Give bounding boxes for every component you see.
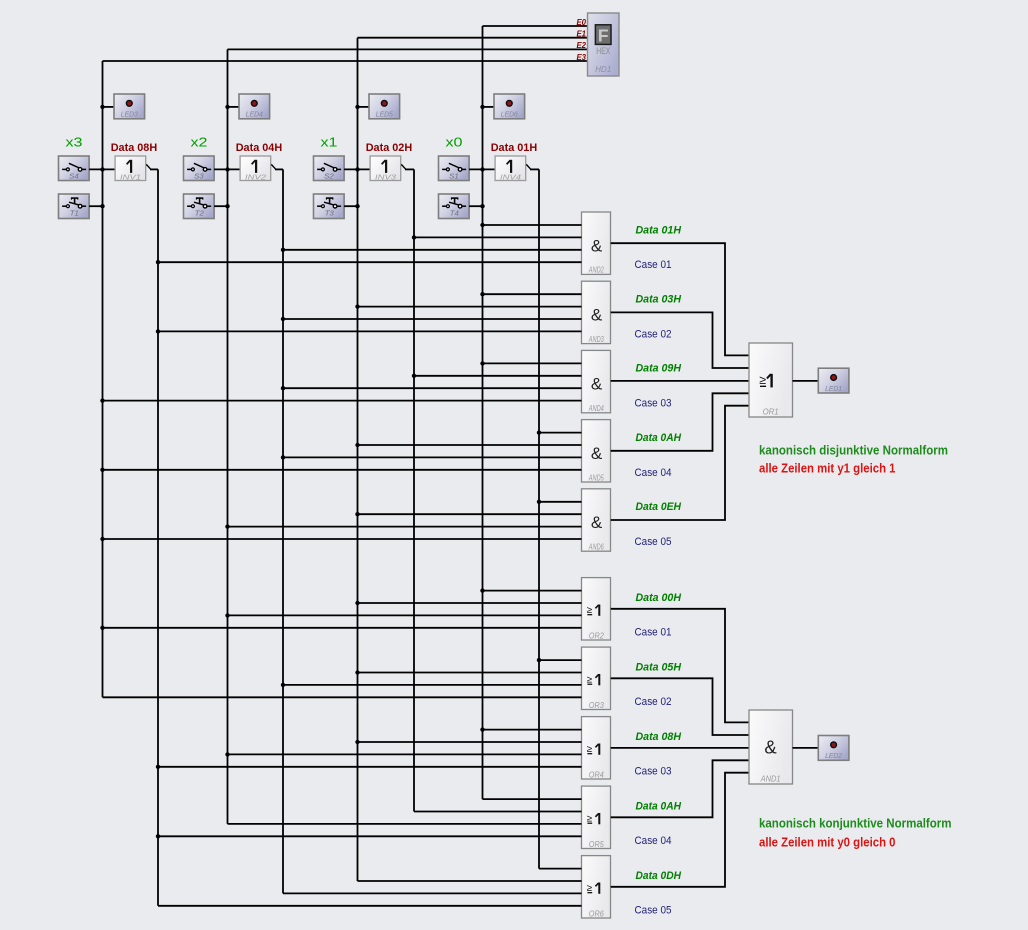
svg-text:Data 01H: Data 01H xyxy=(491,142,538,154)
wire rail x1 to OR3 input 2 xyxy=(358,672,582,674)
wire E2 from rail x2 to hex display xyxy=(228,48,588,50)
svg-text:alle Zeilen mit y0 gleich 0: alle Zeilen mit y0 gleich 0 xyxy=(759,835,896,849)
wire rail x1 to OR6 input 2 xyxy=(358,880,582,882)
svg-text:AND4: AND4 xyxy=(588,404,604,413)
wire T2 output to rail xyxy=(214,205,227,207)
junction rail/T1 xyxy=(100,204,104,208)
junction rail/T4 xyxy=(480,204,484,208)
wire LED4 stub xyxy=(228,106,241,108)
svg-text:HEX: HEX xyxy=(596,46,610,56)
wire E0 from rail x0 to hex display xyxy=(483,25,588,27)
svg-text:E0: E0 xyxy=(576,18,586,27)
wire INV1 output to rail nx3 xyxy=(150,168,158,170)
svg-text:OR4: OR4 xyxy=(589,770,605,779)
junction nx2/OR3.in3 xyxy=(281,683,285,687)
inverter INV4 output negation slash xyxy=(526,164,530,169)
svg-text:OR5: OR5 xyxy=(589,840,605,849)
led LED1 xyxy=(818,368,849,393)
junction x0/AND4.in1 xyxy=(480,361,484,365)
hex display HD1 xyxy=(588,13,620,76)
junction x3/OR2.in4 xyxy=(100,626,104,630)
junction rail/S3 xyxy=(225,167,229,171)
and-gate AND2 xyxy=(582,212,611,275)
or-gate OR3 xyxy=(582,647,611,710)
svg-text:Data 09H: Data 09H xyxy=(636,363,682,375)
led LED5 xyxy=(369,94,400,119)
svg-text:S1: S1 xyxy=(449,171,459,180)
svg-text:T3: T3 xyxy=(325,209,334,218)
junction rail/LED6 xyxy=(480,105,484,109)
wire rail x1 to AND3 input 2 xyxy=(358,306,582,308)
svg-text:INV1: INV1 xyxy=(120,172,141,181)
junction x0/OR2.in1 xyxy=(480,588,484,592)
wire rail nx1 vertical xyxy=(413,169,415,811)
svg-text:≥: ≥ xyxy=(759,373,766,387)
wire OR6 output to AND1 input 5 xyxy=(611,773,749,887)
svg-text:Case 03: Case 03 xyxy=(635,398,672,410)
svg-text:AND5: AND5 xyxy=(588,473,604,482)
svg-text:INV2: INV2 xyxy=(245,172,266,181)
junction nx3/OR5.in4 xyxy=(156,834,160,838)
junction x0/OR4.in1 xyxy=(480,727,484,731)
wire AND3 output to OR1 input 2 xyxy=(611,312,749,368)
wire OR4 output to AND1 input 3 xyxy=(611,747,749,749)
junction x0/AND3.in1 xyxy=(480,292,484,296)
svg-text:&: & xyxy=(591,375,603,394)
led LED6 xyxy=(494,94,525,119)
svg-text:OR6: OR6 xyxy=(589,909,605,918)
svg-text:Data 04H: Data 04H xyxy=(236,142,283,154)
svg-text:kanonisch konjunktive Normalfo: kanonisch konjunktive Normalform xyxy=(759,817,952,831)
junction x1/AND5.in2 xyxy=(355,443,359,447)
wire rail x1 to OR2 input 2 xyxy=(358,602,582,604)
wire rail x3 to AND5 input 4 xyxy=(103,469,582,471)
junction nx0/OR3.in1 xyxy=(537,658,541,662)
svg-text:alle Zeilen mit y1 gleich 1: alle Zeilen mit y1 gleich 1 xyxy=(759,462,896,476)
or-gate OR1 xyxy=(749,343,793,417)
junction nx3/OR4.in4 xyxy=(156,765,160,769)
inverter INV1 xyxy=(115,156,146,181)
svg-text:Case 03: Case 03 xyxy=(635,765,672,777)
svg-text:x3: x3 xyxy=(66,135,83,150)
wire rail nx2 vertical xyxy=(282,169,284,893)
and-gate AND4 xyxy=(582,350,611,413)
svg-text:LED5: LED5 xyxy=(376,110,394,119)
wire AND6 output to OR1 input 5 xyxy=(611,406,749,520)
svg-text:E3: E3 xyxy=(576,53,586,62)
svg-text:Data 08H: Data 08H xyxy=(111,142,158,154)
wire rail nx0 to AND5 input 1 xyxy=(539,432,582,434)
wire LED5 stub xyxy=(358,106,371,108)
or-gate OR4 xyxy=(582,717,611,780)
wire rail x0 to AND2 input 1 xyxy=(483,224,582,226)
wire rail x0 to AND4 input 1 xyxy=(483,362,582,364)
inverter INV4 xyxy=(495,156,526,181)
wire AND4 output to OR1 input 3 xyxy=(611,380,749,382)
wire rail x0 to OR4 input 1 xyxy=(483,729,582,731)
wire rail nx2 to AND5 input 3 xyxy=(283,456,582,458)
svg-text:Case 05: Case 05 xyxy=(635,904,672,916)
svg-text:x0: x0 xyxy=(446,135,463,150)
switch S4 xyxy=(59,156,90,181)
svg-text:S3: S3 xyxy=(194,171,204,180)
junction nx2/AND5.in3 xyxy=(281,455,285,459)
junction nx3/AND3.in4 xyxy=(156,329,160,333)
wire rail x0 to OR5 input 1 xyxy=(483,798,582,800)
wire OR1 output to LED1 xyxy=(793,380,819,382)
svg-text:LED3: LED3 xyxy=(121,110,139,119)
wire rail x0 to OR2 input 1 xyxy=(483,590,582,592)
junction x2/AND6.in3 xyxy=(225,524,229,528)
svg-text:OR2: OR2 xyxy=(589,631,605,640)
wire T4 output to rail xyxy=(469,205,482,207)
svg-text:AND1: AND1 xyxy=(760,773,781,783)
wire rail x2 to AND6 input 3 xyxy=(228,526,582,528)
junction nx2/AND3.in3 xyxy=(281,317,285,321)
svg-text:x2: x2 xyxy=(191,135,208,150)
wire rail x3 to OR2 input 4 xyxy=(103,627,582,629)
wire rail nx1 to OR5 input 2 xyxy=(414,811,582,813)
junction x2/OR2.in3 xyxy=(225,613,229,617)
svg-text:&: & xyxy=(591,513,603,532)
junction nx1/AND4.in2 xyxy=(412,374,416,378)
junction nx2/AND4.in3 xyxy=(281,386,285,390)
wire AND5 output to OR1 input 4 xyxy=(611,393,749,451)
svg-text:S2: S2 xyxy=(324,171,334,180)
svg-text:Data 08H: Data 08H xyxy=(636,731,682,743)
wire rail x0 to AND3 input 1 xyxy=(483,293,582,295)
wire rail nx3 to AND3 input 4 xyxy=(158,330,582,332)
junction x1/OR4.in2 xyxy=(355,740,359,744)
svg-text:Data 01H: Data 01H xyxy=(636,224,682,236)
svg-text:HD1: HD1 xyxy=(595,65,611,74)
wire rail x2 vertical xyxy=(227,49,229,824)
wire rail x3 to OR3 input 4 xyxy=(103,696,582,698)
wire S3 output to INV2 xyxy=(214,168,240,170)
svg-text:Data 00H: Data 00H xyxy=(636,592,682,604)
inverter INV1 output negation slash xyxy=(146,164,150,169)
svg-text:INV3: INV3 xyxy=(375,172,396,181)
wire T1 output to rail xyxy=(89,205,102,207)
wire rail nx2 to AND4 input 3 xyxy=(283,387,582,389)
svg-text:LED1: LED1 xyxy=(825,384,842,393)
svg-text:x1: x1 xyxy=(321,135,338,150)
wire INV2 output to rail nx2 xyxy=(275,168,283,170)
wire rail nx2 to OR6 input 3 xyxy=(283,892,582,894)
svg-text:OR3: OR3 xyxy=(589,701,605,710)
wire rail x2 to OR2 input 3 xyxy=(228,614,582,616)
wire OR5 output to AND1 input 4 xyxy=(611,760,749,817)
inverter INV3 output negation slash xyxy=(401,164,405,169)
toggle switch T3 xyxy=(314,194,345,219)
wire E1 from rail x1 to hex display xyxy=(358,37,588,39)
wire rail nx2 to AND3 input 3 xyxy=(283,318,582,320)
wire rail x1 to OR4 input 2 xyxy=(358,741,582,743)
svg-text:F: F xyxy=(598,26,609,46)
wire rail x2 to OR4 input 3 xyxy=(228,753,582,755)
svg-text:AND6: AND6 xyxy=(588,543,604,552)
junction rail/T2 xyxy=(225,204,229,208)
junction x1/OR2.in2 xyxy=(355,601,359,605)
svg-text:&: & xyxy=(591,236,603,255)
svg-text:Case 05: Case 05 xyxy=(635,536,672,548)
wire rail x1 vertical xyxy=(357,38,359,881)
junction rail/LED3 xyxy=(100,105,104,109)
svg-text:Case 04: Case 04 xyxy=(635,467,672,479)
svg-text:Case 01: Case 01 xyxy=(635,626,672,638)
svg-text:LED2: LED2 xyxy=(825,751,843,760)
svg-text:Data 02H: Data 02H xyxy=(366,142,413,154)
toggle switch T2 xyxy=(184,194,215,219)
junction rail/LED4 xyxy=(225,105,229,109)
wire rail x0 vertical xyxy=(482,26,484,799)
wire rail x1 to AND5 input 2 xyxy=(358,444,582,446)
wire rail nx0 vertical xyxy=(538,169,540,868)
wire rail x3 to AND4 input 4 xyxy=(103,400,582,402)
or-gate OR5 xyxy=(582,786,611,849)
or-gate OR6 xyxy=(582,856,611,919)
wire rail x3 vertical xyxy=(102,61,104,697)
inverter INV2 xyxy=(240,156,271,181)
junction rail/S4 xyxy=(100,167,104,171)
wire rail nx3 to AND2 input 4 xyxy=(158,261,582,263)
wire OR3 output to AND1 input 2 xyxy=(611,678,749,735)
junction rail/S1 xyxy=(480,167,484,171)
junction x3/AND4.in4 xyxy=(100,398,104,402)
svg-text:T2: T2 xyxy=(195,209,204,218)
wire LED6 stub xyxy=(483,106,496,108)
junction x0/AND2.in1 xyxy=(480,223,484,227)
wire rail nx3 vertical xyxy=(157,169,159,905)
svg-text:INV4: INV4 xyxy=(500,172,521,181)
svg-text:kanonisch disjunktive Normalfo: kanonisch disjunktive Normalform xyxy=(759,444,948,458)
svg-text:E1: E1 xyxy=(576,30,586,39)
svg-text:AND3: AND3 xyxy=(588,335,604,344)
wire rail nx1 to AND2 input 2 xyxy=(414,236,582,238)
svg-text:Data 0AH: Data 0AH xyxy=(636,800,682,812)
junction nx0/AND5.in1 xyxy=(537,430,541,434)
wire rail nx0 to OR6 input 1 xyxy=(539,868,582,870)
and-gate AND6 xyxy=(582,489,611,552)
wire S4 output to INV1 xyxy=(89,168,115,170)
svg-text:&: & xyxy=(591,306,603,325)
and-gate AND5 xyxy=(582,420,611,483)
wire rail x3 to AND6 input 4 xyxy=(103,538,582,540)
svg-text:OR1: OR1 xyxy=(763,406,779,416)
svg-text:Data 0DH: Data 0DH xyxy=(636,870,682,882)
toggle switch T4 xyxy=(439,194,470,219)
wire AND1 output to LED2 xyxy=(793,747,819,749)
wire rail nx2 to AND2 input 3 xyxy=(283,249,582,251)
junction nx1/AND2.in2 xyxy=(412,235,416,239)
svg-text:&: & xyxy=(764,737,777,758)
svg-text:Case 04: Case 04 xyxy=(635,835,672,847)
switch S2 xyxy=(314,156,345,181)
junction nx2/AND2.in3 xyxy=(281,248,285,252)
or-gate OR2 xyxy=(582,578,611,641)
wire S1 output to INV4 xyxy=(469,168,495,170)
wire LED3 stub xyxy=(103,106,116,108)
svg-text:Data 0AH: Data 0AH xyxy=(636,432,682,444)
svg-text:T1: T1 xyxy=(70,209,79,218)
wire INV4 output to rail nx0 xyxy=(530,168,539,170)
wire rail nx3 to OR4 input 4 xyxy=(158,766,582,768)
wire rail x1 to AND6 input 2 xyxy=(358,513,582,515)
svg-text:Data 03H: Data 03H xyxy=(636,294,682,306)
wire rail nx0 to AND6 input 1 xyxy=(539,501,582,503)
svg-text:E2: E2 xyxy=(576,41,586,50)
svg-text:Case 02: Case 02 xyxy=(635,328,672,340)
svg-text:T4: T4 xyxy=(450,209,459,218)
inverter INV3 xyxy=(370,156,401,181)
inverter INV2 output negation slash xyxy=(271,164,275,169)
junction x1/OR3.in2 xyxy=(355,670,359,674)
svg-text:&: & xyxy=(591,444,603,463)
led LED2 xyxy=(818,736,849,761)
junction x3/AND6.in4 xyxy=(100,537,104,541)
junction x1/AND3.in2 xyxy=(355,304,359,308)
wire rail x2 to OR5 input 3 xyxy=(228,823,582,825)
wire T3 output to rail xyxy=(344,205,357,207)
junction x1/AND6.in2 xyxy=(355,512,359,516)
wire INV3 output to rail nx1 xyxy=(405,168,414,170)
junction x3/AND5.in4 xyxy=(100,468,104,472)
junction x2/OR4.in3 xyxy=(225,752,229,756)
wire E3 from rail x3 to hex display xyxy=(103,60,588,62)
switch S1 xyxy=(439,156,470,181)
svg-text:LED6: LED6 xyxy=(501,110,519,119)
toggle switch T1 xyxy=(59,194,90,219)
svg-text:Case 02: Case 02 xyxy=(635,696,672,708)
svg-text:AND2: AND2 xyxy=(588,266,604,275)
wire rail nx3 to OR5 input 4 xyxy=(158,835,582,837)
wire rail nx0 to OR3 input 1 xyxy=(539,659,582,661)
svg-text:Data 0EH: Data 0EH xyxy=(636,501,682,513)
junction nx0/AND6.in1 xyxy=(537,500,541,504)
wire rail nx2 to OR3 input 3 xyxy=(283,684,582,686)
svg-text:LED4: LED4 xyxy=(246,110,263,119)
led LED4 xyxy=(239,94,270,119)
switch S3 xyxy=(184,156,215,181)
junction rail/LED5 xyxy=(355,105,359,109)
and-gate AND1 xyxy=(749,710,793,784)
wire AND2 output to OR1 input 1 xyxy=(611,243,749,355)
wire S2 output to INV3 xyxy=(344,168,370,170)
led LED3 xyxy=(114,94,145,119)
wire rail nx1 to AND4 input 2 xyxy=(414,375,582,377)
junction nx3/AND2.in4 xyxy=(156,260,160,264)
svg-text:S4: S4 xyxy=(69,171,79,180)
wire OR2 output to AND1 input 1 xyxy=(611,609,749,723)
svg-text:Data 05H: Data 05H xyxy=(636,661,682,673)
junction rail/T3 xyxy=(355,204,359,208)
junction rail/S2 xyxy=(355,167,359,171)
and-gate AND3 xyxy=(582,281,611,344)
wire rail nx3 to OR6 input 4 xyxy=(158,905,582,907)
svg-text:Case 01: Case 01 xyxy=(635,259,672,271)
